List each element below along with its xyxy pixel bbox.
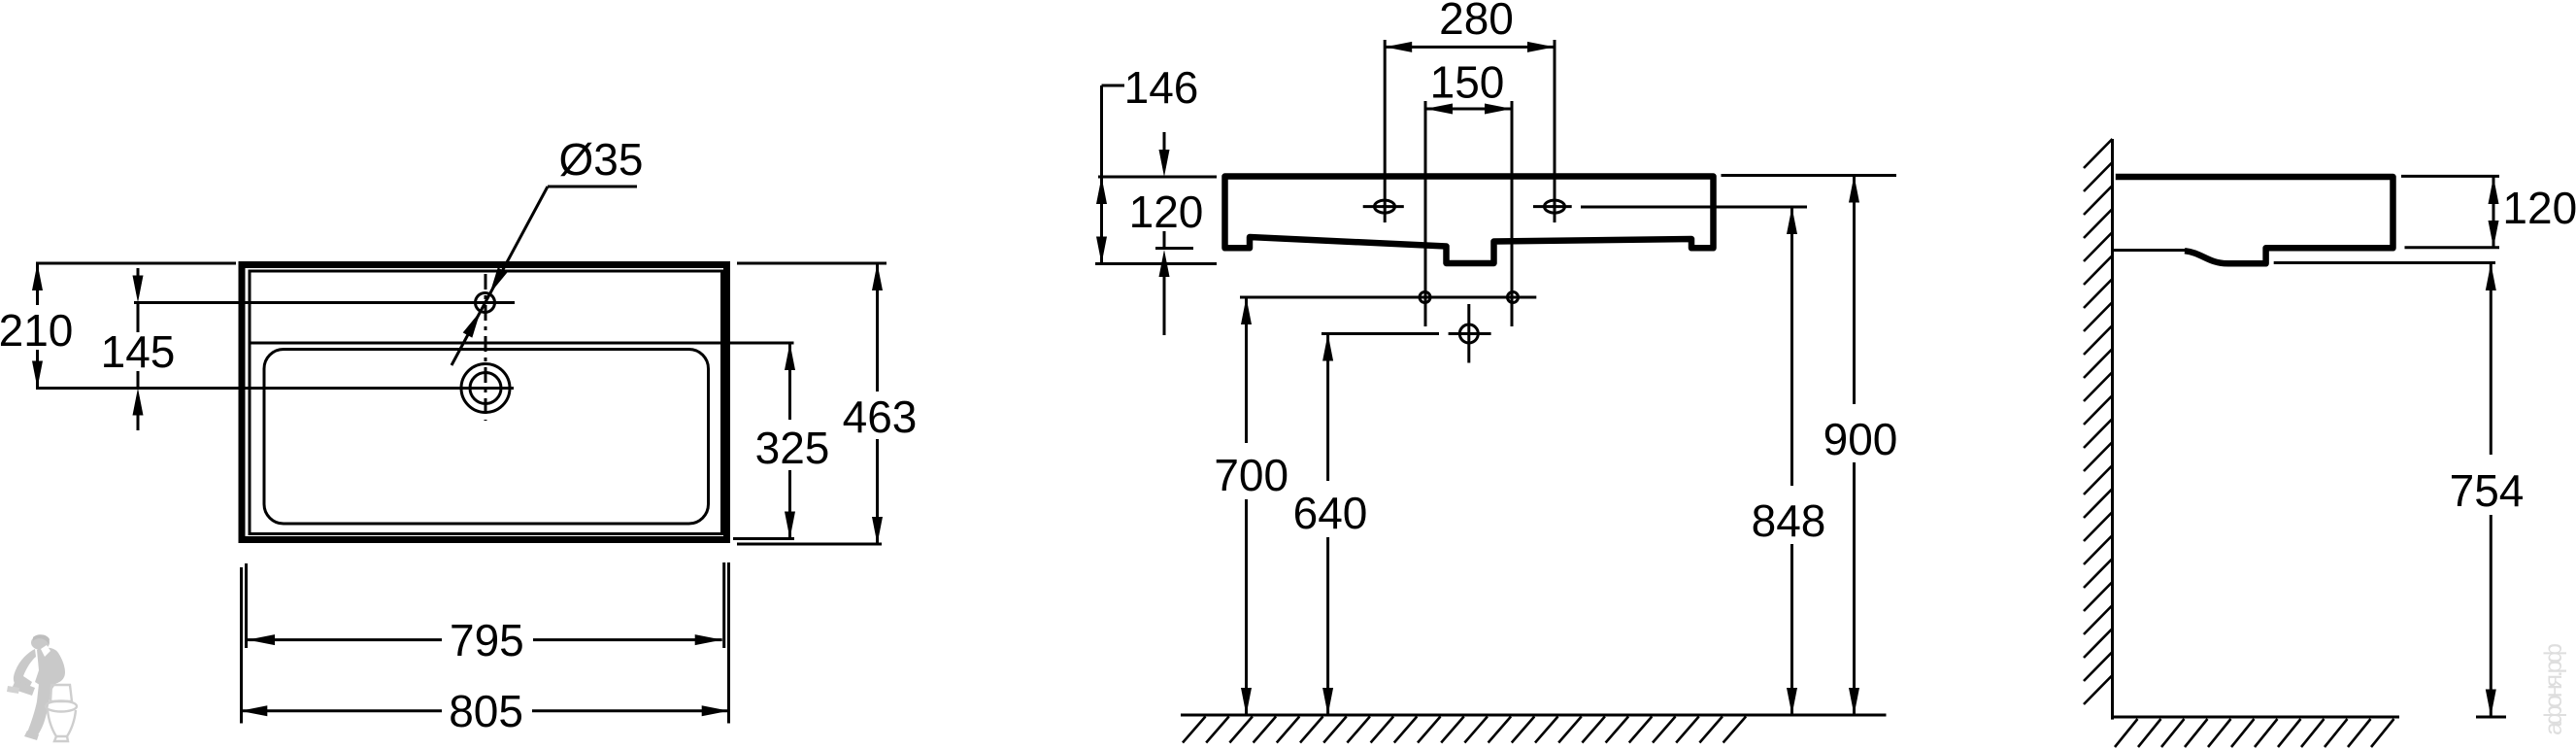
- svg-text:463: 463: [843, 392, 918, 442]
- svg-text:805: 805: [449, 686, 523, 736]
- svg-text:280: 280: [1439, 0, 1514, 44]
- svg-text:146: 146: [1124, 62, 1199, 113]
- svg-text:120: 120: [2502, 183, 2576, 233]
- svg-text:795: 795: [450, 615, 524, 665]
- svg-text:150: 150: [1430, 57, 1505, 108]
- svg-text:900: 900: [1823, 414, 1898, 464]
- svg-text:325: 325: [755, 423, 830, 473]
- svg-text:афоня.рф: афоня.рф: [2540, 643, 2567, 735]
- svg-text:848: 848: [1752, 495, 1826, 546]
- svg-text:700: 700: [1214, 450, 1288, 500]
- svg-text:120: 120: [1129, 187, 1204, 237]
- svg-text:210: 210: [0, 305, 73, 356]
- svg-text:145: 145: [101, 326, 176, 377]
- svg-text:Ø35: Ø35: [559, 134, 644, 185]
- svg-text:640: 640: [1293, 488, 1368, 538]
- svg-text:754: 754: [2450, 465, 2525, 516]
